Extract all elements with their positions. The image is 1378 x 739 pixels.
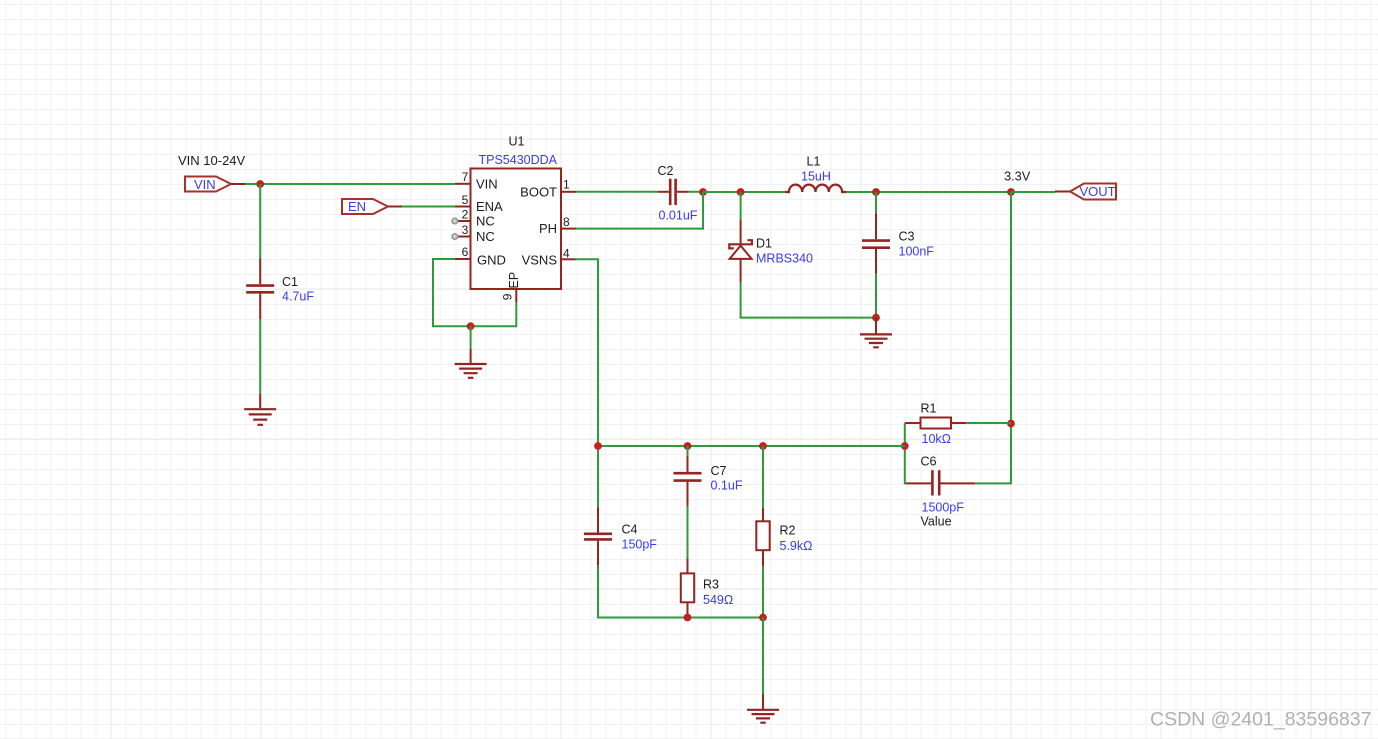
junction feedback node right (901, 442, 909, 450)
svg-text:C3: C3 (899, 229, 915, 243)
junction GND net below U1 (467, 322, 475, 330)
svg-text:GND: GND (477, 253, 506, 268)
wire bottom rail to ground (762, 618, 764, 695)
wire VIN to U1 pin 7 (245, 183, 455, 185)
capacitor C4 150pF (584, 507, 657, 565)
svg-text:R3: R3 (703, 577, 719, 591)
junction VIN node (256, 180, 264, 188)
svg-text:1500pF: 1500pF (922, 500, 965, 514)
ground (feedback) (747, 694, 779, 723)
svg-text:D1: D1 (756, 236, 772, 250)
pin 2 NC (458, 220, 471, 222)
junction C7 top (684, 442, 692, 450)
svg-text:4: 4 (563, 246, 570, 260)
IC U1 TPS5430DDA (452, 134, 576, 302)
pin 9 EP (515, 289, 517, 303)
capacitor C7 0.1uF (674, 446, 743, 506)
ground (below U1) (455, 349, 487, 378)
svg-text:VIN: VIN (476, 177, 498, 192)
svg-text:EN: EN (348, 199, 366, 214)
svg-text:VOUT: VOUT (1080, 184, 1116, 199)
svg-text:9: 9 (501, 293, 515, 300)
junction R3 bottom (684, 614, 692, 622)
diode D1 MRBS340 (schottky) (729, 220, 813, 282)
junction gnd rail node (872, 314, 880, 322)
port VIN (185, 177, 245, 192)
svg-text:2: 2 (462, 207, 469, 221)
wire D1 to gnd rail (741, 282, 876, 318)
capacitor C6 1500pF (906, 454, 975, 528)
svg-text:VSNS: VSNS (522, 253, 558, 268)
wire VSNS pin4 down to feedback rail (575, 259, 598, 507)
wire EN to U1 pin 5 (402, 206, 455, 208)
svg-text:150pF: 150pF (622, 537, 658, 551)
svg-text:EP: EP (507, 272, 521, 289)
wire VOUT node to port (1011, 191, 1055, 193)
wire VOUT node down to R1/C6 (975, 192, 1011, 483)
svg-text:C6: C6 (921, 454, 937, 468)
inductor L1 15uH (785, 154, 846, 192)
wire R2 to bottom rail (762, 566, 764, 618)
pin 4 VSNS (561, 258, 576, 260)
net label VIN 10-24V (178, 153, 246, 168)
capacitor C1 4.7uF (246, 259, 314, 320)
svg-text:6: 6 (462, 245, 469, 259)
wire junction to ground (470, 326, 472, 349)
svg-text:C2: C2 (658, 164, 674, 178)
svg-text:PH: PH (539, 221, 557, 236)
pin 5 ENA (455, 206, 471, 208)
svg-text:7: 7 (462, 170, 469, 184)
svg-text:R2: R2 (780, 523, 796, 537)
capacitor C2 0.01uF (658, 164, 698, 223)
capacitor C3 100nF (862, 213, 934, 274)
svg-text:R1: R1 (921, 401, 937, 415)
junction bottom rail / ground (759, 614, 767, 622)
resistor R1 10k (905, 401, 966, 446)
svg-text:TPS5430DDA: TPS5430DDA (479, 153, 558, 167)
port VOUT (1055, 184, 1116, 200)
resistor R2 5.9k (756, 508, 812, 566)
wire R1 to junction (966, 422, 1011, 424)
resistor R3 549 (681, 559, 733, 616)
junction L1/C3 node (872, 188, 880, 196)
wire C7 to R3 (687, 506, 689, 558)
pin 1 BOOT (561, 191, 576, 193)
svg-text:0.01uF: 0.01uF (659, 209, 698, 223)
wire feedback rail (598, 445, 905, 447)
svg-text:L1: L1 (807, 154, 821, 168)
svg-text:U1: U1 (509, 134, 525, 148)
junction VOUT node (1007, 188, 1015, 196)
junction BOOT/PH node (699, 188, 707, 196)
wire C2 to BOOT net junction (689, 191, 704, 193)
svg-text:5: 5 (462, 193, 469, 207)
wire L1 to VOUT node (846, 191, 1011, 193)
svg-text:NC: NC (476, 229, 495, 244)
wire VIN down to C1 (259, 184, 261, 259)
pin 7 VIN (455, 183, 471, 185)
svg-text:ENA: ENA (476, 199, 503, 214)
net label 3.3V (1004, 168, 1031, 183)
port EN (342, 199, 402, 214)
watermark (1150, 709, 1371, 731)
wire C4 to bottom rail (598, 566, 763, 618)
svg-text:C1: C1 (282, 275, 298, 289)
wire R1 left down to C6 (905, 423, 906, 483)
ground (output rail) (860, 318, 892, 348)
svg-text:VIN 10-24V: VIN 10-24V (178, 153, 246, 168)
ground (below C1) (244, 394, 276, 425)
svg-text:1: 1 (563, 178, 570, 192)
wire junction to L1 (703, 191, 785, 193)
svg-text:549Ω: 549Ω (703, 593, 733, 607)
svg-text:4.7uF: 4.7uF (282, 289, 314, 303)
wire down to D1 (740, 192, 742, 220)
wire GND pin6 loop to EP (433, 259, 516, 326)
svg-text:Value: Value (921, 514, 952, 528)
pin 3 NC (458, 236, 471, 238)
svg-text:8: 8 (563, 215, 570, 229)
svg-text:3.3V: 3.3V (1004, 168, 1031, 183)
junction PH/D1 node (737, 188, 745, 196)
svg-text:CSDN @2401_83596837: CSDN @2401_83596837 (1150, 709, 1371, 731)
svg-text:MRBS340: MRBS340 (756, 251, 813, 265)
svg-text:0.1uF: 0.1uF (711, 478, 743, 492)
wire down to C3 (875, 192, 877, 213)
svg-text:VIN: VIN (194, 177, 216, 192)
pin 8 PH (561, 228, 576, 230)
svg-text:100nF: 100nF (899, 245, 935, 259)
wire PH pin8 up to junction (576, 192, 703, 229)
junction R1 right node (1007, 420, 1015, 428)
junction R2 top (759, 442, 767, 450)
svg-text:15uH: 15uH (801, 169, 831, 183)
wire C1 to ground (259, 319, 261, 393)
svg-text:10kΩ: 10kΩ (922, 432, 952, 446)
svg-text:3: 3 (462, 223, 469, 237)
svg-text:C7: C7 (711, 464, 727, 478)
wire C3 to gnd rail (875, 274, 877, 318)
svg-text:BOOT: BOOT (520, 184, 557, 199)
junction feedback rail / C4 (594, 442, 602, 450)
pin 6 GND (455, 258, 471, 260)
wire BOOT pin1 to C2 (576, 191, 658, 193)
svg-text:C4: C4 (622, 522, 638, 536)
wire R2 top lead (762, 446, 764, 508)
svg-text:NC: NC (476, 214, 495, 229)
svg-text:5.9kΩ: 5.9kΩ (780, 539, 813, 553)
